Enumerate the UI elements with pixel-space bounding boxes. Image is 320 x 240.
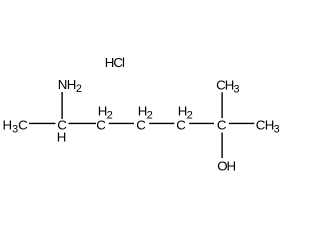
wire bond C4-C3 [149,122,174,124]
wire bond C2-OH [221,133,223,159]
wire bond C6-C5 [69,122,97,124]
svg-text:C: C [136,117,146,132]
wire bond H3C-C6 [29,122,56,124]
svg-text:C: C [96,117,106,132]
svg-text:HCl: HCl [105,55,125,70]
wire bond NH2-C6 [61,92,63,119]
svg-text:H: H [57,130,67,145]
wire bond CH3top-C2 [221,92,223,118]
wire bond C2-CH3right [229,122,254,124]
wire bond C3-C2 [189,122,214,124]
svg-text:C: C [217,117,227,132]
svg-text:C: C [176,117,186,132]
wire bond C5-C4 [109,122,134,124]
svg-text:OH: OH [217,159,235,174]
